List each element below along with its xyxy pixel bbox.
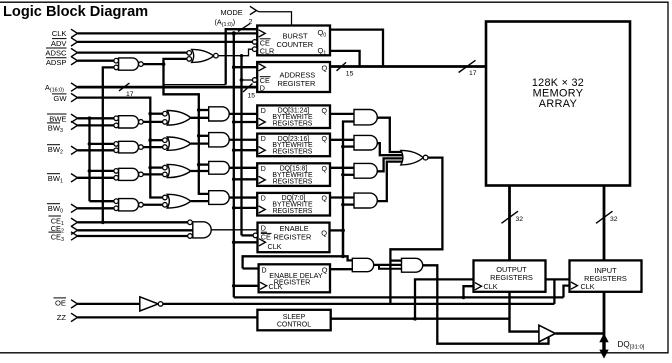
wire OR2 output <box>191 142 209 144</box>
svg-text:CLK: CLK <box>484 282 498 291</box>
wire OE inverted <box>163 303 554 305</box>
burst counter CE label <box>260 38 271 47</box>
svg-text:REGISTERS: REGISTERS <box>273 178 313 185</box>
svg-text:2: 2 <box>249 19 253 26</box>
wire A(1:0) tap <box>164 84 226 86</box>
junction V1 to DQ31:24 clock <box>232 120 258 124</box>
wire CLK trunk bottom <box>234 296 564 298</box>
gate G2 input bubble <box>187 57 192 62</box>
enable register clock triangle <box>259 239 266 246</box>
wire OE feedback up left <box>415 279 474 318</box>
wire output registers Q down <box>510 292 539 332</box>
wire BW1 <box>78 177 114 179</box>
OE input label <box>54 298 67 308</box>
bytewrite register DQ[15:8] clock triangle <box>259 176 266 183</box>
address register clock triangle <box>259 64 266 71</box>
CE3 input arrow <box>71 232 78 240</box>
CE2 input arrow <box>71 226 78 234</box>
svg-text:Q: Q <box>322 136 328 143</box>
svg-text:D: D <box>261 195 266 202</box>
ADSP input arrow <box>71 57 78 65</box>
OR4 input bubbles <box>163 195 168 200</box>
wire V2 load signal <box>240 56 242 236</box>
junction G1 output <box>162 62 166 66</box>
wire AND2 output to D input <box>229 139 257 141</box>
NAND4 output bubble <box>139 202 144 207</box>
AND1 write-data gate body <box>209 107 229 121</box>
junction G1G2 to AND2 <box>197 134 209 138</box>
bus slash 32 input <box>596 211 613 223</box>
svg-text:D: D <box>261 224 266 233</box>
wire CLK <box>78 32 258 34</box>
wire enable register Q <box>330 229 344 231</box>
junction enable register Q <box>341 229 345 233</box>
wire AND3 output to D input <box>229 167 257 169</box>
wire BW2 <box>78 149 114 151</box>
svg-text:CLK: CLK <box>52 29 67 38</box>
wire AND B output to tristate enable <box>423 265 549 343</box>
gate G1 body <box>119 58 139 70</box>
junction V1 to address register clock <box>232 65 258 69</box>
svg-text:D: D <box>261 166 266 173</box>
bytewrite register DQ[31:24] clock triangle <box>259 118 266 125</box>
wire G1 output <box>143 63 163 65</box>
OR3 body <box>167 164 191 177</box>
svg-text:D: D <box>262 268 267 275</box>
junction GW to OR2 <box>148 138 162 142</box>
OR1 body <box>167 111 191 126</box>
svg-text:CONTROL: CONTROL <box>277 322 311 329</box>
svg-text:SLEEP: SLEEP <box>283 314 306 321</box>
CE gate input bubble CE3 <box>188 234 193 239</box>
BWE input arrow <box>71 114 78 122</box>
svg-text:CLK: CLK <box>268 242 282 251</box>
junction G1G2 to AND1 <box>197 108 209 112</box>
junction V1 to enable register clock <box>232 240 258 244</box>
junction BWE to NAND2 <box>88 142 114 146</box>
svg-text:REGISTERS: REGISTERS <box>490 273 533 282</box>
wire AND A output <box>374 264 402 266</box>
OR2 body <box>167 137 191 150</box>
wire CLK to input registers clock <box>564 286 571 298</box>
wire memory array to output registers 32 <box>508 186 511 261</box>
junction CLK to V1 <box>232 31 236 35</box>
wire BW3 <box>78 124 114 126</box>
memory array box <box>486 22 630 186</box>
wire burst counter Q1 <box>330 51 360 67</box>
tristate output buffer body <box>539 325 556 342</box>
ADSC input label <box>45 48 67 57</box>
enable delay register box <box>259 264 330 292</box>
wire CLK V1 vertical <box>233 33 235 297</box>
svg-text:ADV: ADV <box>51 39 68 48</box>
junction enable to write AND2 <box>341 145 354 149</box>
wire ADSP to gate G1 <box>78 60 114 62</box>
wire write AND2 to NOR <box>377 143 406 155</box>
svg-text:GW: GW <box>53 94 67 103</box>
address register CE label <box>260 76 271 85</box>
address register CE bubble <box>252 78 257 83</box>
BWE input label <box>47 114 67 123</box>
OR1 input bubbles <box>163 111 168 116</box>
ADV input label <box>51 39 68 48</box>
bus slash 17 on A bus <box>119 83 130 91</box>
output registers box <box>474 260 546 291</box>
BW3 input arrow <box>71 121 78 129</box>
bytewrite register DQ[23:16] clock triangle <box>259 147 266 154</box>
svg-text:Q: Q <box>322 265 328 274</box>
junction enable to write AND3 <box>341 173 354 177</box>
wire G2 output to CLR <box>218 49 252 56</box>
wire CE3 <box>78 235 188 237</box>
BW3 overline <box>47 122 60 124</box>
burst counter clock triangle <box>259 30 266 37</box>
wire enable register Q loop <box>342 230 344 256</box>
wire OE feedback right stub <box>546 278 570 280</box>
GW input label <box>52 94 67 103</box>
wire ZZ to sleep control <box>78 316 258 318</box>
wire enable loop horizontal <box>243 256 343 268</box>
wire write AND4 to NOR <box>377 162 406 202</box>
svg-text:Q: Q <box>322 64 328 73</box>
bus slash 15 after address register <box>337 62 347 70</box>
enable register CE label <box>261 233 272 242</box>
wire OE feedback down leg <box>553 279 555 304</box>
wire BWE <box>78 117 114 119</box>
input registers clock triangle <box>571 282 578 289</box>
svg-text:CLK: CLK <box>581 282 595 291</box>
gate G2 body <box>192 49 214 62</box>
ADV input arrow <box>71 38 78 46</box>
wire address bus to memory array <box>330 65 486 68</box>
NOR write-collect gate body <box>401 150 424 165</box>
wire enable vertical to write ANDs <box>343 122 354 257</box>
svg-text:32: 32 <box>610 216 618 223</box>
NAND3 input bubbles <box>114 169 119 174</box>
svg-text:ZZ: ZZ <box>57 313 67 322</box>
ADSP input label <box>46 58 67 67</box>
burst counter CLR bubble <box>252 47 257 52</box>
enable register D label <box>261 224 267 233</box>
svg-text:MODE: MODE <box>221 8 243 17</box>
AND2 write-data gate body <box>209 133 229 147</box>
output AND B body <box>402 258 423 272</box>
junction V1 to DQ23:16 clock <box>232 148 258 152</box>
bus slash 17 at memory array <box>459 60 476 72</box>
wire DQ row4 Q output <box>330 196 354 198</box>
wire OR4 output <box>191 200 209 202</box>
wire enable loop to AND A <box>343 256 352 260</box>
svg-text:ARRAY: ARRAY <box>539 98 577 110</box>
wire AND A to AND B third input <box>379 265 402 269</box>
bus slash 32 output <box>502 211 519 223</box>
CE gate input bubble CE1 <box>188 220 193 225</box>
write AND3 gate body <box>354 163 377 178</box>
wire write AND1 to NOR <box>377 118 406 152</box>
bus slash 15 at address register D <box>243 84 253 93</box>
wire DQ row3 Q output <box>330 167 354 169</box>
svg-text:ENABLE: ENABLE <box>280 224 309 233</box>
wire V2 to enable register CE <box>242 234 254 236</box>
svg-text:ADSC: ADSC <box>45 48 67 57</box>
bus slash 2 on A(1:0) tap <box>238 24 250 32</box>
wire write AND3 to NOR <box>377 158 407 171</box>
BW1 overline <box>47 173 60 175</box>
wire CE gate output to enable register D <box>211 229 257 231</box>
CE1 overline <box>49 215 62 217</box>
A input arrow <box>71 83 78 91</box>
AND3 write-data gate body <box>209 161 229 174</box>
write AND1 gate body <box>354 110 377 125</box>
wire BWE riser <box>88 118 90 201</box>
NAND1 body <box>119 116 139 128</box>
wire G1 CE input riser <box>103 67 114 222</box>
svg-text:Logic Block Diagram: Logic Block Diagram <box>3 4 148 20</box>
svg-text:15: 15 <box>346 71 354 78</box>
DQ bidirectional arrow <box>599 333 608 358</box>
svg-text:CLK: CLK <box>269 282 283 291</box>
bytewrite register DQ[23:16] box <box>257 134 330 157</box>
NAND3 body <box>119 168 139 180</box>
CE gate body <box>193 222 211 238</box>
wire NAND1 output <box>143 121 162 123</box>
junction BWE at NAND1 <box>88 116 92 120</box>
NAND1 output bubble <box>139 120 144 125</box>
enable register box <box>258 223 330 253</box>
wire CE2 <box>78 229 193 231</box>
svg-text:OE: OE <box>55 299 66 308</box>
AND4 write-data gate body <box>209 191 230 205</box>
wire A address bus <box>78 86 258 89</box>
svg-text:ADSP: ADSP <box>46 58 67 67</box>
svg-text:17: 17 <box>469 70 477 77</box>
wire ADSC to gate G2 <box>78 51 187 53</box>
svg-text:D: D <box>261 108 266 115</box>
junction G1G2 to AND3 <box>197 163 209 167</box>
junction V2 to address register CE <box>240 78 253 82</box>
svg-text:REGISTERS: REGISTERS <box>273 120 313 127</box>
svg-text:D: D <box>261 136 266 143</box>
junction V1 to enable delay clock <box>232 284 259 288</box>
enable delay clock triangle <box>260 282 267 289</box>
wire MODE to burst counter D <box>256 11 291 26</box>
junction G2 output to V2 <box>240 54 243 57</box>
wire NAND3 output <box>143 173 162 175</box>
junction enable loop bottom <box>341 254 345 258</box>
wire DQ row1 Q output <box>330 113 354 115</box>
BW2 input arrow <box>71 146 78 154</box>
wire tristate output to DQ <box>555 332 604 335</box>
BW1 input arrow <box>71 174 78 182</box>
svg-text:CLR: CLR <box>260 47 274 56</box>
junction OE-sleep <box>413 317 417 321</box>
NAND2 body <box>119 141 139 153</box>
svg-text:REGISTERS: REGISTERS <box>273 208 313 215</box>
burst counter box <box>257 26 330 56</box>
svg-text:15: 15 <box>248 93 256 100</box>
wire enable loop to delay D <box>243 267 259 269</box>
OR3 input bubbles <box>163 165 168 170</box>
write AND2 gate body <box>354 135 377 150</box>
svg-text:Q: Q <box>321 228 327 237</box>
bytewrite register DQ[31:24] box <box>257 105 330 128</box>
wire DQ row2 Q output <box>330 139 354 141</box>
wire CE1 <box>78 221 188 223</box>
address register box <box>257 62 330 92</box>
junction enable to write AND4 <box>341 203 354 207</box>
enable register CE bubble <box>253 233 258 238</box>
bytewrite register DQ[15:8] box <box>257 163 330 186</box>
svg-text:Q: Q <box>322 108 328 115</box>
BW0 input arrow <box>71 204 78 212</box>
NAND2 output bubble <box>139 145 144 150</box>
burst counter CE bubble <box>252 40 257 45</box>
gate G1 input bubble CE <box>114 65 119 70</box>
wire enable delay Q to AND A <box>330 268 352 270</box>
OE inverter bubble <box>158 302 163 307</box>
wire ADV to burst counter CE <box>78 41 253 43</box>
OR4 body <box>167 194 191 208</box>
output AND A body <box>352 258 373 271</box>
wire OE to inverter <box>78 303 140 305</box>
svg-text:REGISTER: REGISTER <box>278 79 316 88</box>
NAND4 body <box>119 199 139 211</box>
junction V1 to DQ7:0 clock <box>232 206 258 210</box>
svg-text:Q: Q <box>322 195 328 202</box>
wire sleep control output <box>331 318 510 320</box>
wire NAND4 output <box>143 204 162 206</box>
NAND4 input bubbles <box>114 199 119 204</box>
wire NOR path to output AND B <box>390 259 401 261</box>
BW2 overline <box>47 144 60 146</box>
junction BWE to NAND3 <box>88 169 114 173</box>
CE1 input arrow <box>71 218 78 226</box>
wire burst counter Q0 <box>330 30 383 67</box>
wire NAND2 output <box>143 146 162 148</box>
wire OR3 output <box>191 170 209 172</box>
wire OR1 output <box>191 117 209 119</box>
write AND4 gate body <box>354 193 377 208</box>
wire AND4 output to D input <box>229 196 257 198</box>
NOR output bubble <box>423 155 428 160</box>
svg-text:REGISTER: REGISTER <box>274 233 312 242</box>
NAND2 input bubbles <box>114 142 119 147</box>
gate G1 input bubble ADSP <box>114 58 119 63</box>
NAND1 input bubbles <box>114 116 119 121</box>
junction CE1 to G1 riser <box>101 220 105 224</box>
wire input registers to memory array 32 <box>603 186 606 261</box>
wire BW0 <box>78 207 114 209</box>
bytewrite register DQ[7:0] clock triangle <box>259 206 266 213</box>
wire A(1:0) riser to burst counter <box>226 29 258 84</box>
GW input arrow <box>71 93 78 101</box>
junction GW to OR3 <box>148 166 162 170</box>
BW0 overline <box>47 203 60 205</box>
bytewrite register DQ[7:0] box <box>257 193 330 216</box>
OR2 input bubbles <box>163 138 168 143</box>
gate G2 output bubble <box>214 53 219 58</box>
svg-text:REGISTERS: REGISTERS <box>273 149 313 156</box>
NAND3 output bubble <box>139 172 144 177</box>
svg-text:D: D <box>260 84 265 93</box>
junction CLK to output registers clock <box>462 286 474 299</box>
input registers box <box>570 260 642 291</box>
wire NOR output path <box>390 158 442 304</box>
gate G2 input bubble ADSC <box>187 51 192 56</box>
ADSC input arrow <box>71 48 78 56</box>
wire G2 lower input <box>164 59 209 194</box>
CLK input arrow <box>71 29 78 37</box>
junction GW to OR1 <box>148 112 162 116</box>
wire BWE to NAND4 <box>90 200 114 202</box>
svg-text:Q: Q <box>322 166 328 173</box>
svg-text:32: 32 <box>516 216 524 223</box>
OE input arrow <box>71 300 78 308</box>
ZZ input arrow <box>71 313 78 321</box>
sleep control box <box>257 310 330 331</box>
junction V1 to DQ15:8 clock <box>232 177 258 181</box>
svg-text:BWE: BWE <box>49 114 66 123</box>
wire DQ to input registers <box>603 292 606 336</box>
MODE input arrow <box>250 6 257 14</box>
svg-text:COUNTER: COUNTER <box>277 40 314 49</box>
output registers clock triangle <box>475 283 482 290</box>
CE3 overline <box>49 231 62 233</box>
OE inverter body <box>140 297 158 311</box>
wire GW <box>78 98 163 198</box>
wire AND1 output to D input <box>229 113 257 115</box>
gate G1 output bubble <box>139 62 144 67</box>
